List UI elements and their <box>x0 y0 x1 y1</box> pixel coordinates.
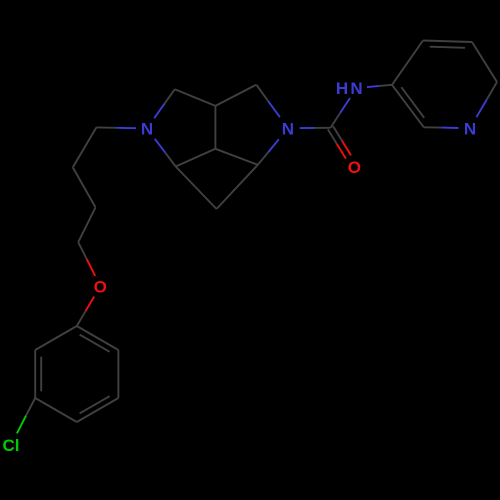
svg-text:O: O <box>94 277 107 296</box>
bond C(=O)-NH (urea) <box>331 98 351 128</box>
bond O-C1 aryl (ether to benzene) <box>77 297 94 327</box>
pyridine bond N1-C6 <box>476 82 497 117</box>
bond NH-C3 pyridine <box>367 85 392 87</box>
benzene double bond C4=C5 <box>77 396 119 422</box>
bond N2-C1 (pyrrolidine CH2, upper left) <box>154 89 175 118</box>
svg-text:H: H <box>336 79 348 98</box>
double bond C=O (carbonyl) <box>328 126 351 158</box>
pyridine double bond C5=C4 <box>423 41 472 48</box>
bond CH2-CH2 (chain) <box>73 167 96 207</box>
benzene bond C3-C4 <box>35 398 77 422</box>
benzene double bond C6=C1 <box>77 326 119 352</box>
bond N5-C4 (pyrrolidine CH2, upper right) <box>256 85 280 118</box>
bond N5-C6 (pyrrolidine CH2, lower right) <box>258 139 279 165</box>
pyridine double bond C3=C2 <box>392 85 424 128</box>
bond C4-C6a (to top fusion carbon) <box>215 85 256 106</box>
svg-text:N: N <box>282 119 294 138</box>
bond C3-Cl (chloro substituent) <box>17 398 35 433</box>
svg-text:O: O <box>348 158 361 177</box>
benzene double bond C2=C3 <box>35 350 41 398</box>
pyridine bond C4-C3 <box>392 41 423 85</box>
bond C6-C3a <box>215 149 257 165</box>
bond CH2-CH2 (chain to ether) <box>78 207 95 242</box>
svg-text:N: N <box>141 120 153 139</box>
bond CH2-O (ether) <box>78 242 95 276</box>
bond C1-C6a (to top fusion carbon) <box>175 89 216 106</box>
bond N2-C3 (pyrrolidine CH2, lower left) <box>155 139 176 167</box>
bond N2-CH2 (butyl chain start) <box>96 126 136 129</box>
benzene bond C5-C6 <box>117 350 119 398</box>
bond C6a-C3a (central vertical fusion bond) <box>214 106 216 149</box>
pyridine bond C6-C5 <box>472 42 497 82</box>
pyridine bond C2-N1 <box>424 126 459 129</box>
bond N5-C(=O) (urea carbonyl) <box>300 127 331 129</box>
svg-text:N: N <box>350 79 362 98</box>
svg-text:Cl: Cl <box>3 436 20 455</box>
bond CH2-CH2 (chain) <box>73 127 97 167</box>
bond C3-C7 (bridge CH2, left leg) <box>176 167 217 210</box>
svg-text:N: N <box>464 119 476 138</box>
benzene bond C1-C2 <box>35 326 77 350</box>
bond C3-C3a <box>176 149 216 167</box>
bond C6-C7 (bridge CH2, right leg) <box>217 165 258 209</box>
